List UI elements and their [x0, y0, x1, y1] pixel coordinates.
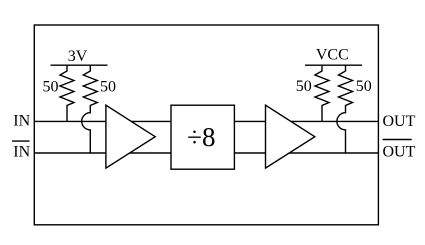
resistor R1 50 (3V rail to IN) [60, 65, 74, 121]
overline of OUT-bar port label [383, 139, 412, 141]
svg-text:50: 50 [100, 79, 116, 96]
wire IN-bar (bottom-left signal wire) [34, 152, 171, 154]
svg-text:VCC: VCC [316, 47, 349, 64]
svg-text:OUT: OUT [383, 113, 416, 130]
svg-text:3V: 3V [68, 48, 88, 65]
svg-text:50: 50 [356, 78, 372, 95]
svg-text:50: 50 [43, 79, 59, 96]
wire OUT (top-right signal wire) [234, 120, 378, 122]
svg-text:IN: IN [13, 144, 30, 161]
wire IN (top-left signal wire) [34, 120, 171, 122]
svg-text:IN: IN [13, 113, 30, 130]
overline of IN-bar port label [12, 140, 30, 142]
svg-text:OUT: OUT [383, 144, 416, 161]
IC package boundary box [34, 25, 378, 225]
wire OUT-bar (bottom-right signal wire) [234, 152, 378, 154]
divide-by-8 block U2 [171, 105, 234, 169]
svg-text:÷8: ÷8 [187, 122, 215, 152]
resistor R2 50 (3V rail to IN-bar, with wire hop over IN) [82, 65, 98, 153]
resistor R3 50 (VCC rail to OUT) [315, 65, 329, 121]
svg-text:50: 50 [296, 78, 312, 95]
input buffer U1 (triangle) [106, 105, 155, 168]
3V supply rail [51, 64, 108, 66]
output buffer U3 (triangle) [266, 105, 315, 168]
VCC supply rail [305, 64, 362, 66]
resistor R4 50 (VCC rail to OUT-bar, with wire hop over OUT) [337, 65, 353, 153]
